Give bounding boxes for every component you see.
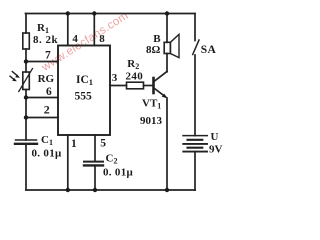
- wire R2 to base: [144, 85, 154, 87]
- photoresistor RG: [10, 69, 33, 92]
- capacitor C2: [84, 162, 103, 166]
- wire top rail: [26, 13, 196, 15]
- transistor VT1: [154, 72, 168, 99]
- wire top rail to speaker: [166, 14, 168, 43]
- wire emitter to bottom rail: [166, 98, 168, 190]
- svg-text:RG: RG: [38, 73, 55, 85]
- speaker B: [164, 34, 179, 57]
- svg-text:8Ω: 8Ω: [146, 44, 161, 56]
- wire pin 5: [94, 135, 96, 162]
- svg-text:555: 555: [75, 91, 93, 103]
- wire pin 6: [26, 97, 58, 99]
- svg-text:8. 2k: 8. 2k: [33, 34, 59, 46]
- wire bottom rail: [26, 189, 195, 191]
- node bottom rail / pin1: [66, 188, 70, 192]
- node R1-RG pin7: [24, 59, 28, 63]
- node top rail / speaker: [165, 11, 169, 15]
- svg-text:6: 6: [46, 86, 52, 98]
- wire R1 bottom to node: [25, 49, 27, 62]
- svg-text:5: 5: [100, 138, 106, 150]
- svg-text:0. 01μ: 0. 01μ: [103, 167, 133, 179]
- wire node7 to RG: [25, 62, 27, 73]
- wire SA to battery: [194, 55, 196, 136]
- svg-text:7: 7: [45, 50, 51, 62]
- switch SA: [193, 40, 199, 55]
- wire pin 7: [26, 61, 58, 63]
- node top rail / pin4: [66, 11, 70, 15]
- wire pin 4: [67, 14, 69, 46]
- wire RG bottom to node6: [25, 90, 27, 99]
- wire right branch top: [194, 14, 196, 41]
- node top rail / pin8: [92, 11, 96, 15]
- svg-text:SA: SA: [201, 44, 217, 56]
- battery U: [183, 136, 207, 152]
- wire pin 1: [67, 135, 69, 190]
- node pin2 C1: [24, 115, 28, 119]
- watermark www.elecfans.com: [39, 10, 131, 74]
- svg-text:9V: 9V: [209, 143, 223, 155]
- svg-text:U: U: [211, 131, 219, 143]
- wire collector to speaker: [166, 54, 168, 72]
- wire battery to bottom rail: [194, 152, 196, 190]
- svg-text:8: 8: [99, 33, 105, 45]
- wire pin 2: [26, 117, 58, 119]
- wire C2 to bottom rail: [94, 166, 96, 191]
- wire pin 3: [110, 85, 127, 87]
- svg-text:240: 240: [126, 70, 144, 82]
- resistor R1: [23, 33, 30, 49]
- resistor R2: [127, 82, 144, 89]
- wire node2 to C1: [25, 118, 27, 141]
- node RG bottom pin6: [24, 95, 28, 99]
- capacitor C1: [15, 140, 37, 144]
- svg-text:9013: 9013: [140, 115, 163, 127]
- wire left column top (rail to R1): [25, 14, 27, 34]
- svg-text:0. 01μ: 0. 01μ: [32, 148, 62, 160]
- wire node6 to node2: [25, 98, 27, 118]
- svg-text:2: 2: [44, 102, 50, 116]
- op-amp U1 IC box 555: [58, 46, 110, 136]
- node bottom rail / C2: [93, 188, 97, 192]
- node bottom rail / emitter: [165, 188, 169, 192]
- wire pin 8: [93, 14, 95, 46]
- svg-text:3: 3: [112, 72, 118, 84]
- wire C1 to bottom rail: [25, 144, 27, 190]
- svg-text:4: 4: [72, 33, 78, 45]
- svg-text:1: 1: [71, 138, 77, 150]
